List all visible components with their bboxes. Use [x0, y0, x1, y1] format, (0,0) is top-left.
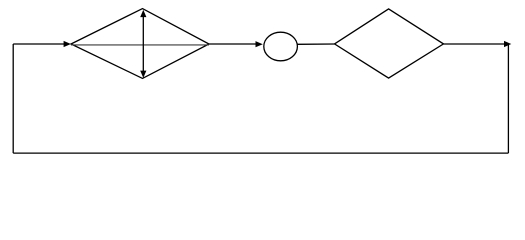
arrowhead: into block D1 left vertex [64, 41, 71, 47]
wire: feedback left vertical [12, 44, 14, 153]
wire: output segment from block D2 to top-right corner [444, 43, 505, 45]
arrowhead: output arrow at top-right corner [504, 41, 511, 47]
arrowhead: into junction circle [256, 41, 263, 47]
wire: feedback right vertical [507, 44, 509, 153]
wire: from junction circle to block D2 [297, 43, 334, 45]
wire: feedback bottom horizontal [13, 152, 508, 154]
wire: from block D1 right vertex to junction circle [209, 43, 256, 45]
arrowhead: down tip of double arrow in D1 [140, 71, 146, 78]
wire: input segment from top-left corner to block D1 [13, 43, 64, 45]
arrowhead: up tip of double arrow in D1 [140, 10, 146, 17]
wire: horizontal diagonal inside block D1 [71, 44, 209, 46]
block D2: decision diamond [335, 9, 444, 78]
junction circle U1 [264, 32, 298, 61]
block D1: diamond (valve-like symbol) [71, 9, 209, 79]
wire: vertical shaft of double arrow inside block D1 [142, 16, 144, 72]
